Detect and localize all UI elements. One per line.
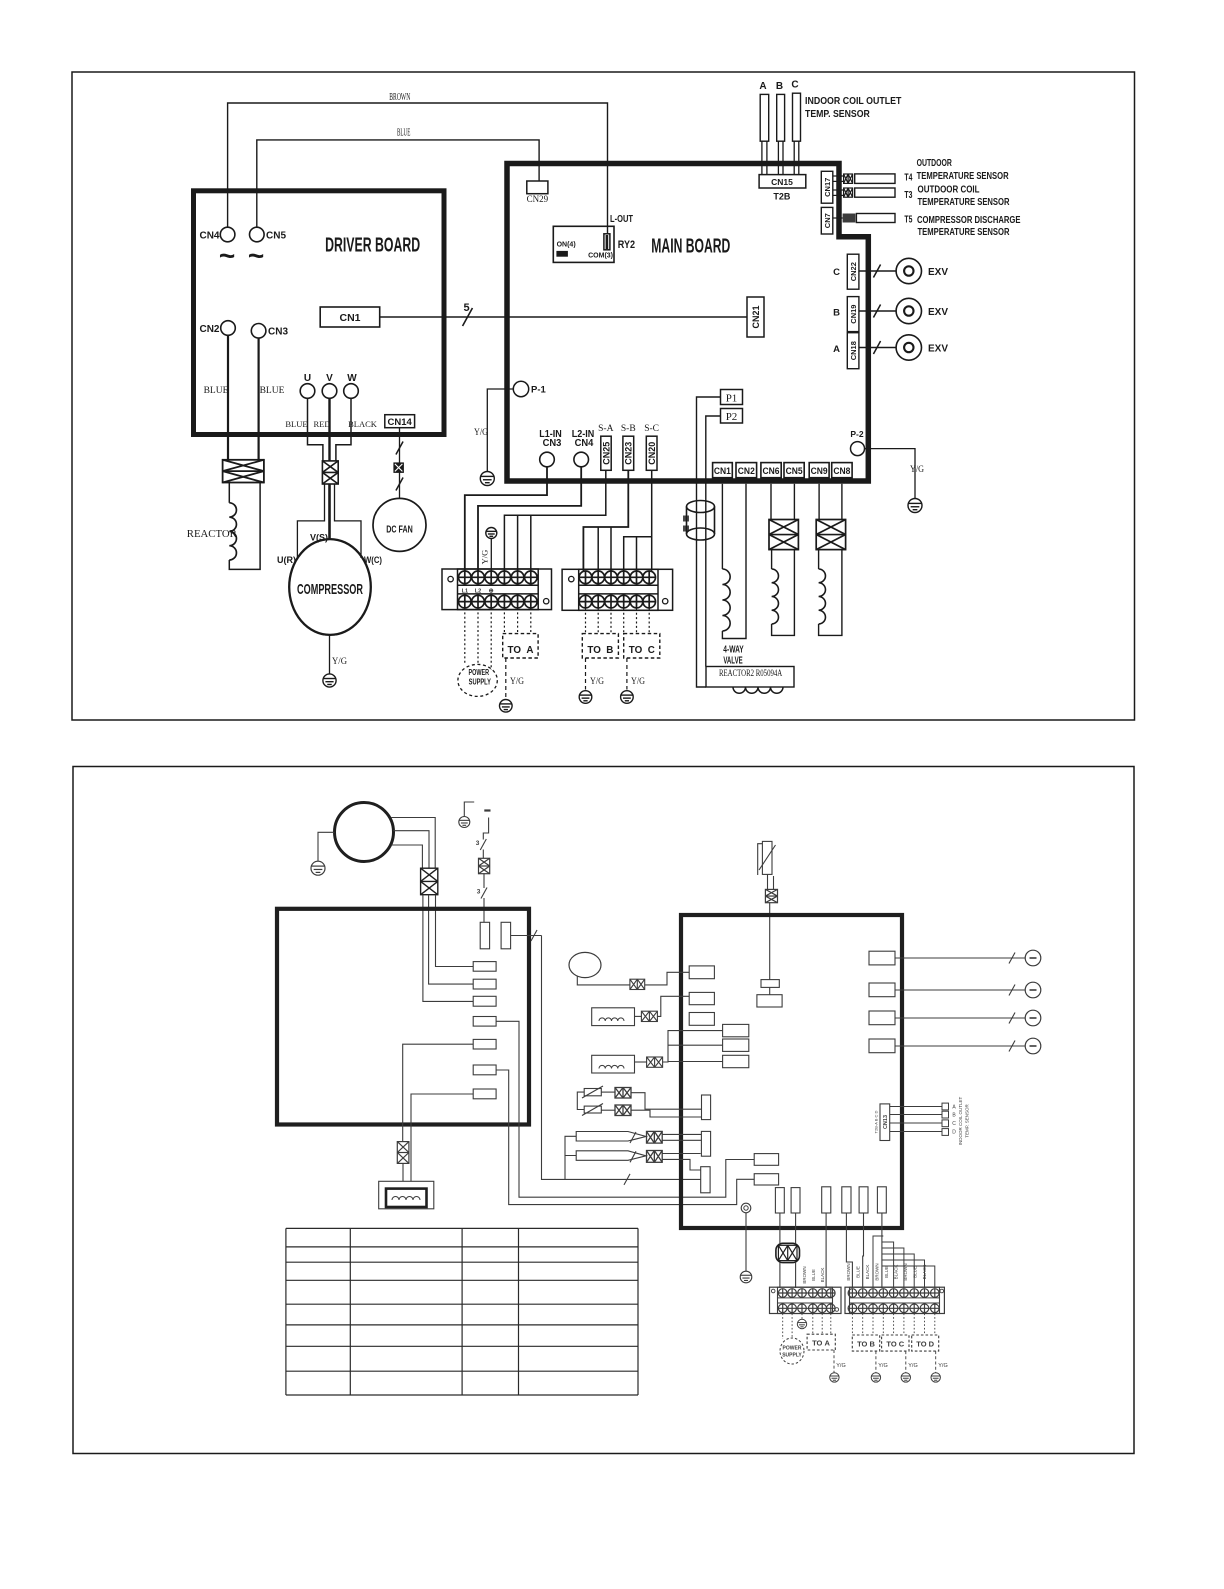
board connector C3 [822, 1187, 831, 1213]
svg-text:BROWN: BROWN [389, 92, 410, 103]
svg-text:VALVE: VALVE [723, 655, 742, 666]
connector P2 [721, 409, 743, 424]
svg-text:POWER: POWER [469, 668, 490, 677]
TO A earth lower [833, 1350, 835, 1373]
svg-text:EXV: EXV [928, 344, 948, 355]
svg-text:CN5: CN5 [266, 231, 286, 242]
svg-text:P1: P1 [726, 393, 738, 405]
svg-text:C: C [952, 1121, 956, 1127]
TO C box lower [882, 1335, 909, 1351]
svg-text:CN3: CN3 [543, 437, 562, 449]
heater 2 wire to board [663, 1031, 723, 1062]
wire CN4 to terminal block [478, 467, 581, 571]
svg-text:W(C): W(C) [364, 555, 382, 566]
svg-text:U: U [304, 373, 311, 384]
dashed leads TO C [623, 608, 625, 633]
connector CN4 [220, 227, 235, 242]
pressure switch feed [565, 1136, 576, 1155]
svg-text:S-A: S-A [598, 424, 613, 434]
pressure switch 2 [576, 1151, 646, 1161]
wire BLUE from CN5 to CN29 [257, 140, 539, 227]
indoor coil sensor pin C [793, 93, 801, 141]
connector CN7 [821, 207, 833, 234]
compressor 2 plug connector [421, 868, 438, 895]
connector CN18 [847, 333, 859, 369]
reactor 2 of lower diagram [379, 1181, 434, 1209]
svg-text:D: D [952, 1130, 956, 1136]
discharge thermistor probe [762, 841, 772, 874]
board 2 EXV connector E3 [869, 1011, 895, 1025]
svg-text:CN5: CN5 [786, 466, 804, 477]
svg-text:BLUE: BLUE [397, 128, 410, 139]
svg-text:CN25: CN25 [601, 442, 611, 465]
svg-text:CN8: CN8 [833, 466, 850, 477]
fan motor 2 [569, 952, 601, 977]
svg-text:COM(3): COM(3) [588, 253, 613, 260]
TO B ground [579, 691, 592, 704]
wire P-2 to ground Y/G [865, 449, 916, 498]
svg-text:C: C [833, 267, 840, 278]
svg-text:BLUE: BLUE [913, 1266, 918, 1278]
svg-text:Y/G: Y/G [510, 677, 524, 687]
reactor2 R05094A [706, 667, 794, 688]
svg-text:BLUE: BLUE [856, 1266, 861, 1278]
compressor earth wire Y/G [329, 635, 331, 674]
svg-text:TO B: TO B [857, 1340, 875, 1349]
svg-text:CN18: CN18 [849, 341, 858, 360]
board connector C1 [775, 1188, 784, 1213]
probe pedestal [761, 980, 779, 988]
wire to W(C) terminal [335, 484, 362, 558]
svg-text:DRIVER BOARD: DRIVER BOARD [325, 235, 420, 257]
board connector B1h [754, 1154, 778, 1166]
connector CN5 [249, 227, 264, 242]
svg-text:⊕: ⊕ [489, 588, 494, 594]
power wire down and across [542, 936, 701, 1180]
specification table [286, 1227, 638, 1229]
thermistor sensor 2 [584, 1106, 601, 1113]
panel 1 frame [72, 72, 1135, 720]
board connector LC [689, 1013, 714, 1026]
compressor 2 earth wire [318, 832, 335, 861]
compressor ground [323, 674, 336, 687]
wire R7 to reactor 2 [411, 1094, 473, 1181]
svg-text:COMPRESSOR: COMPRESSOR [297, 581, 363, 598]
board connector CNP2 [501, 922, 511, 949]
sensor T3 outdoor coil temperature sensor [833, 189, 844, 191]
svg-text:Y/G: Y/G [908, 1363, 917, 1369]
reactor coil [228, 483, 230, 503]
TO C dashed leads lower [882, 1314, 884, 1336]
svg-text:RED: RED [314, 419, 331, 429]
svg-text:TO C: TO C [629, 644, 655, 656]
ground for P-1 [480, 472, 494, 486]
svg-text:L1: L1 [462, 588, 468, 594]
terminal U [300, 384, 315, 399]
svg-text:TO C: TO C [886, 1340, 904, 1349]
svg-text:BLACK: BLACK [894, 1265, 899, 1280]
svg-text:Y/G: Y/G [332, 657, 347, 667]
relay RY2 [553, 226, 614, 262]
TO A box [503, 634, 538, 658]
svg-text:Y/G: Y/G [910, 465, 924, 475]
board connector C5 [859, 1187, 868, 1213]
compressor 2 ground [311, 861, 325, 875]
main board outline [507, 164, 868, 482]
svg-text:CN6: CN6 [763, 466, 780, 477]
svg-text:INDOOR COIL OUTLET: INDOOR COIL OUTLET [958, 1096, 963, 1145]
svg-text:P-2: P-2 [850, 429, 864, 439]
svg-text:MAIN BOARD: MAIN BOARD [651, 236, 730, 258]
wire bundle to compressor [328, 484, 331, 540]
solenoid valve plug CN6 CN5 [770, 484, 772, 520]
terminal W [344, 384, 359, 399]
wires U V W to compressor plug [308, 398, 323, 461]
connector CN1 main board [713, 463, 733, 478]
terminal block 1 [442, 569, 552, 610]
svg-text:SUPPLY: SUPPLY [782, 1353, 802, 1359]
thermistor wires to board connector T1 [631, 1093, 702, 1110]
svg-text:B: B [833, 308, 840, 319]
wire CN20 to terminal block 2 [651, 470, 653, 570]
wire R4 to bottom rail [496, 1021, 754, 1197]
svg-text:TEMPERATURE SENSOR: TEMPERATURE SENSOR [918, 226, 1010, 238]
power supply [458, 664, 497, 696]
svg-text:CN4: CN4 [575, 437, 594, 449]
svg-text:CN2: CN2 [199, 324, 219, 335]
svg-text:Y/G: Y/G [836, 1363, 845, 1369]
svg-text:B: B [776, 81, 783, 92]
thermistor 2 plug [615, 1105, 631, 1116]
EXV C valve [859, 270, 896, 272]
ferrite core over P1 P2 wires [686, 507, 688, 535]
wire CN3 to reactor [258, 338, 260, 460]
connector CN6 [761, 463, 781, 478]
TO C earth lower [905, 1351, 907, 1373]
wire C6 fan-out to block 2 [881, 1213, 883, 1288]
svg-text:S-B: S-B [621, 424, 636, 434]
fan plug connector 2 [630, 979, 645, 989]
board connector R3 [473, 996, 496, 1006]
svg-text:BLUE: BLUE [811, 1269, 816, 1281]
svg-text:RY2: RY2 [618, 239, 635, 251]
CN13 sensor wires [890, 1106, 942, 1108]
svg-text:CN3: CN3 [268, 327, 288, 338]
wire R5 to reactor 2 [403, 1044, 474, 1141]
board 2 EXV connector E2 [869, 983, 895, 997]
svg-text:CN4: CN4 [199, 231, 219, 242]
fan plug connector [394, 463, 404, 473]
connector CN13 indoor coil outlet sensor [880, 1104, 890, 1141]
svg-text:TO B: TO B [587, 644, 613, 656]
svg-text:BLUE: BLUE [260, 386, 285, 396]
ground for P-2 [908, 499, 922, 513]
TO A dashed leads lower [812, 1314, 814, 1335]
wire to U(R) terminal [297, 484, 324, 558]
board connector LA [689, 966, 714, 979]
TO C ground [621, 691, 634, 704]
svg-text:COMPRESSOR DISCHARGE: COMPRESSOR DISCHARGE [917, 214, 1021, 226]
svg-text:T3: T3 [904, 190, 912, 201]
control board outline [277, 909, 529, 1125]
EXV coil D lower [895, 1045, 1025, 1047]
svg-text:C: C [791, 80, 798, 91]
board connector T3 [701, 1167, 710, 1193]
board connector MA [723, 1024, 749, 1036]
svg-text:~: ~ [248, 240, 264, 271]
main board 2 outline [681, 915, 902, 1228]
wire CN25 to terminal block [504, 470, 605, 570]
svg-text:~: ~ [219, 240, 235, 271]
TO A earth lead [505, 658, 507, 699]
compressor motor [289, 539, 371, 635]
solenoid valve plug CN9 CN8 [818, 484, 820, 520]
svg-text:POWER: POWER [783, 1346, 802, 1352]
dashed leads TO A [503, 608, 505, 634]
svg-text:BLACK: BLACK [922, 1265, 927, 1280]
svg-text:A: A [759, 81, 766, 92]
svg-text:CN23: CN23 [624, 442, 634, 465]
svg-text:CN20: CN20 [647, 442, 657, 465]
wire CN1 to CN21 (5 wires) [380, 316, 747, 318]
svg-text:BROWN: BROWN [802, 1266, 807, 1283]
TO B earth lower [875, 1351, 877, 1373]
svg-text:T2B: T2B [773, 192, 791, 202]
TO B earth lead [585, 658, 587, 690]
TO A box lower [807, 1334, 835, 1350]
svg-text:EXV: EXV [928, 307, 948, 318]
svg-text:TO D: TO D [916, 1340, 934, 1349]
svg-text:CN2: CN2 [738, 466, 755, 477]
compressor 2 phase wires [392, 818, 436, 869]
TO B box [582, 634, 618, 658]
svg-text:CN19: CN19 [849, 305, 858, 324]
connector CN9 [809, 463, 829, 478]
indoor coil sensor pin A [760, 94, 769, 141]
thermistor plug connector [765, 889, 777, 902]
indoor coil sensor pin B [777, 94, 785, 141]
svg-text:BLACK: BLACK [348, 419, 378, 429]
svg-text:CN22: CN22 [849, 262, 858, 281]
earth stub on terminal block 1 [486, 528, 497, 539]
svg-text:Y/G: Y/G [938, 1363, 947, 1369]
svg-text:BLACK: BLACK [820, 1268, 825, 1283]
svg-text:CN14: CN14 [388, 417, 413, 428]
svg-text:L-OUT: L-OUT [610, 214, 633, 225]
connector CN22 [847, 254, 859, 289]
connector CN17 [821, 171, 833, 203]
power supply 2 leads [782, 1314, 784, 1340]
board connector T1 [702, 1095, 711, 1120]
sensor T4 outdoor temperature sensor [833, 175, 844, 177]
svg-text:L2: L2 [475, 588, 481, 594]
svg-text:SUPPLY: SUPPLY [469, 678, 492, 687]
svg-text:BLUE: BLUE [204, 386, 229, 396]
board 2 EXV connector E1 [869, 951, 895, 965]
connector CN15 T2B [759, 175, 806, 188]
svg-text:TEMP. SENSOR: TEMP. SENSOR [965, 1104, 970, 1138]
svg-text:V: V [326, 373, 333, 384]
TO C box [624, 634, 660, 658]
svg-text:REACTOR2 R05094A: REACTOR2 R05094A [719, 669, 782, 679]
svg-text:T2B-A B C D: T2B-A B C D [874, 1110, 879, 1133]
compressor plug connector [322, 461, 338, 484]
pressure switch 1 plug [647, 1131, 663, 1143]
connector CN3 [251, 324, 266, 339]
connector CN8 [832, 463, 852, 478]
board connector R5 [473, 1039, 496, 1049]
terminal block 2 [562, 569, 673, 610]
board connector LB [689, 992, 714, 1004]
solenoid valve coil 1 [771, 550, 773, 569]
svg-text:Y/G: Y/G [631, 677, 645, 687]
heater 2 plug connector [647, 1057, 663, 1067]
board connector R6 [473, 1065, 496, 1075]
connector CN2 [221, 321, 236, 336]
fan motor 2 wire [577, 976, 630, 985]
board connector B2h [754, 1174, 778, 1185]
svg-text:3: 3 [477, 889, 481, 896]
svg-text:REACTOR: REACTOR [187, 529, 237, 540]
wire P1 to reactor2 [697, 397, 721, 687]
svg-text:ON(4): ON(4) [557, 242, 576, 249]
TO D box lower [912, 1335, 939, 1351]
wire P-1 to ground [487, 389, 513, 472]
svg-text:OUTDOOR: OUTDOOR [917, 157, 953, 169]
svg-text:W: W [347, 373, 357, 384]
svg-text:DC FAN: DC FAN [386, 524, 413, 536]
earth stub block 1 lower [797, 1319, 806, 1328]
wire R6 to bottom rail [496, 1070, 754, 1205]
EXV coil C lower [895, 1017, 1025, 1019]
svg-text:P-1: P-1 [531, 385, 547, 396]
svg-text:BLUE: BLUE [285, 419, 307, 429]
reactor plug connector [223, 460, 264, 483]
svg-text:TEMPERATURE SENSOR: TEMPERATURE SENSOR [917, 170, 1009, 182]
CN13 sensor pins [942, 1103, 949, 1110]
pressure switch 2 plug [647, 1151, 663, 1163]
thermistor 1 plug [615, 1088, 631, 1099]
board connector R7 [473, 1089, 496, 1099]
terminal block lower left [770, 1287, 842, 1313]
line fuse and switch [464, 802, 474, 816]
TO D dashed leads lower [913, 1314, 915, 1336]
terminal P-1 [513, 381, 528, 396]
sensor T5 compressor discharge temperature sensor [833, 217, 843, 219]
noise filter [779, 1213, 781, 1243]
terminal P-2 [851, 442, 865, 456]
svg-text:OUTDOOR COIL: OUTDOOR COIL [918, 184, 980, 196]
wire C5 to block [862, 1213, 865, 1288]
panel 2 frame [73, 767, 1134, 1454]
svg-text:A: A [833, 344, 840, 355]
wire C4 to block [846, 1213, 852, 1288]
4-way valve coil [721, 484, 723, 569]
TO D earth lower [935, 1351, 937, 1373]
solenoid valve coil 2 [818, 550, 820, 569]
board connector R4 [473, 1017, 496, 1027]
svg-text:CN21: CN21 [751, 305, 761, 328]
board 2 earth [745, 1213, 747, 1272]
wire BROWN from CN4 to RY2 L-OUT [228, 103, 608, 234]
svg-text:S-C: S-C [644, 424, 659, 434]
crankcase heater 2 [592, 1055, 635, 1073]
svg-text:EXV: EXV [928, 267, 948, 278]
terminal block lower right [845, 1287, 944, 1313]
board connector MC [723, 1055, 749, 1067]
board connector MB [723, 1039, 749, 1051]
svg-text:CN7: CN7 [823, 213, 832, 228]
compressor motor 2 [335, 803, 394, 862]
board connector R1 [473, 962, 496, 972]
svg-text:5: 5 [463, 302, 469, 314]
board connector C2 [791, 1188, 800, 1213]
connector CN2 main board [736, 463, 757, 478]
svg-text:U(R): U(R) [277, 555, 296, 566]
pressure switch 1 [576, 1132, 646, 1142]
svg-text:T5: T5 [904, 215, 912, 226]
svg-text:CN9: CN9 [811, 466, 828, 477]
svg-text:CN15: CN15 [771, 177, 793, 187]
board connector C4 [842, 1187, 851, 1213]
connector CN14 [385, 415, 415, 428]
svg-text:CN13: CN13 [883, 1115, 889, 1129]
TO B box lower [852, 1335, 879, 1351]
board 2 EXV connector E4 [869, 1039, 895, 1053]
svg-text:T4: T4 [904, 172, 912, 183]
svg-text:Y/G: Y/G [878, 1363, 887, 1369]
connector CN5 [784, 463, 804, 478]
TO B dashed leads lower [851, 1314, 853, 1336]
wire CN2 to reactor [227, 335, 229, 460]
EXV A valve [859, 347, 896, 349]
connector P1 [721, 390, 743, 405]
power supply leads [464, 608, 466, 664]
svg-text:V(S): V(S) [310, 533, 328, 544]
connector CN29 [527, 181, 548, 194]
svg-text:CN29: CN29 [527, 194, 549, 204]
EXV coil A lower [895, 957, 1025, 959]
EXV B valve [859, 310, 896, 312]
slash 5-wire mark [463, 308, 473, 326]
svg-text:BROWN: BROWN [903, 1263, 908, 1280]
wire CN23 to terminal block 2 [583, 470, 628, 570]
crankcase heater 1 [592, 1008, 635, 1026]
svg-text:BROWN: BROWN [846, 1263, 851, 1280]
svg-text:TO A: TO A [812, 1339, 830, 1348]
svg-text:BLUE: BLUE [884, 1266, 889, 1278]
board connector CNP1 [480, 922, 489, 949]
svg-text:3: 3 [476, 840, 480, 847]
reactor plug connector 2 [397, 1142, 409, 1164]
wire P2 to reactor2 [706, 416, 721, 667]
board connector R2 [473, 979, 496, 989]
dashed leads TO B [585, 608, 587, 633]
wire C3 to block [825, 1213, 827, 1288]
svg-text:BLACK: BLACK [865, 1265, 870, 1280]
svg-text:TEMPERATURE SENSOR: TEMPERATURE SENSOR [918, 196, 1010, 208]
svg-text:INDOOR COIL OUTLET: INDOOR COIL OUTLET [805, 95, 902, 107]
TO A ground [500, 700, 513, 713]
svg-text:Y/G: Y/G [480, 550, 490, 565]
connector CN1 on driver board [320, 307, 380, 327]
thermistor left links [577, 1092, 584, 1109]
connector CN19 [847, 297, 859, 332]
thermistor sensor 1 [584, 1089, 601, 1096]
DC fan wire with connector [399, 428, 401, 499]
svg-text:TO A: TO A [508, 644, 534, 656]
DC fan motor [373, 498, 426, 551]
